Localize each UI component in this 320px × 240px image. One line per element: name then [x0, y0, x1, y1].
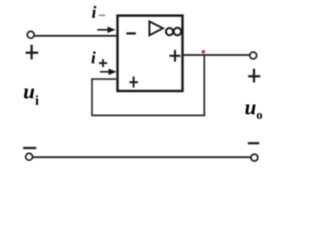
- plus sign at output terminal (right): [248, 69, 260, 83]
- label i-: [92, 6, 105, 18]
- wire: top input (inverting): [34, 35, 118, 37]
- wire: feedback right vertical: [203, 55, 205, 116]
- junction node (red dot): [202, 50, 206, 54]
- label i+: [91, 51, 107, 67]
- minus sign at bottom-right terminal: [248, 142, 259, 144]
- input terminal (top-left, open circle): [27, 32, 34, 39]
- bottom-left terminal (open circle): [26, 154, 33, 161]
- plus sign at input terminal (left): [26, 45, 39, 60]
- wire: feedback bottom horizontal: [91, 114, 205, 116]
- current arrow i-: [97, 27, 115, 33]
- infinite-gain symbol (infinity): [166, 28, 181, 36]
- wire: bottom common: [33, 156, 252, 158]
- wire: output: [183, 54, 250, 56]
- current arrow i+: [100, 69, 117, 75]
- op-amp triangle symbol: [149, 21, 163, 35]
- op-amp U1 body (rectangle): [118, 16, 183, 91]
- wire: non-inverting input (horizontal into box): [91, 78, 117, 80]
- label u_o: [245, 105, 262, 119]
- inverting input minus sign (inside box): [126, 32, 135, 34]
- non-inverting input plus sign (inside box): [129, 77, 138, 88]
- output plus sign (inside box, near right edge): [169, 50, 180, 62]
- output terminal (open circle): [250, 52, 257, 59]
- minus sign at bottom-left terminal: [23, 147, 36, 149]
- label u_i: [24, 89, 39, 105]
- bottom-right terminal (open circle): [251, 154, 258, 161]
- wire: feedback left vertical: [91, 78, 93, 115]
